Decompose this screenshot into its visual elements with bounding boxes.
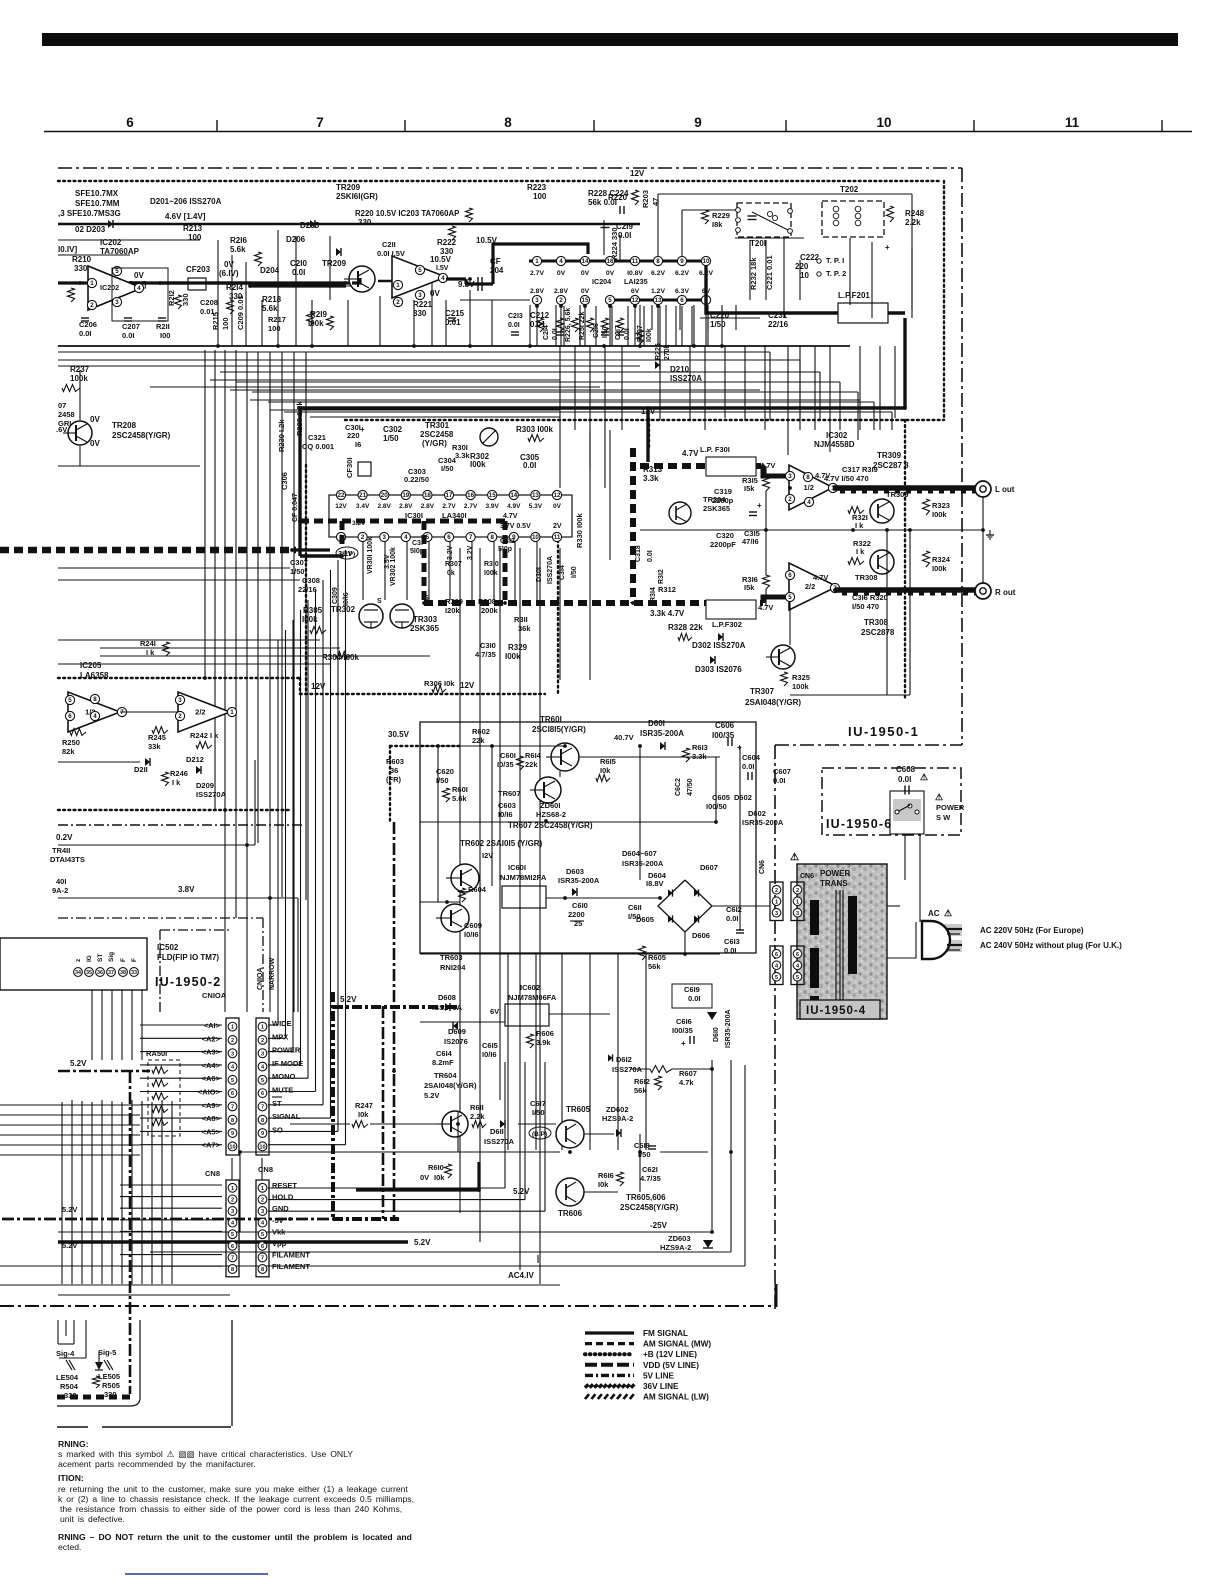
svg-text:22: 22 <box>338 492 345 499</box>
svg-text:7: 7 <box>261 1255 264 1261</box>
svg-text:R24I: R24I <box>140 639 156 648</box>
svg-text:MUTE: MUTE <box>272 1086 293 1095</box>
svg-text:IU-1950-1: IU-1950-1 <box>848 724 919 739</box>
svg-text:5: 5 <box>418 267 422 274</box>
svg-text:I00: I00 <box>160 331 170 340</box>
svg-text:5.2V: 5.2V <box>513 1187 530 1196</box>
svg-text:16: 16 <box>467 492 474 499</box>
svg-text:2SC287 8: 2SC287 8 <box>873 461 909 470</box>
svg-text:L.P.F302: L.P.F302 <box>712 620 742 629</box>
svg-text:C307: C307 <box>290 558 308 567</box>
svg-text:36: 36 <box>390 766 398 775</box>
svg-text:12V: 12V <box>460 681 475 690</box>
svg-text:0.0I: 0.0I <box>898 775 911 784</box>
svg-text:IF MODE: IF MODE <box>272 1059 303 1068</box>
svg-text:D303 IS2076: D303 IS2076 <box>695 665 742 674</box>
svg-text:2: 2 <box>796 888 799 894</box>
svg-text:8: 8 <box>806 474 810 481</box>
svg-text:6: 6 <box>261 1091 264 1097</box>
svg-text:0.0I I.5V: 0.0I I.5V <box>377 249 405 258</box>
svg-text:0V: 0V <box>581 270 590 277</box>
svg-text:FLD(FIP IO TM7): FLD(FIP IO TM7) <box>157 953 219 962</box>
svg-text:7: 7 <box>231 1104 234 1110</box>
svg-text:10: 10 <box>229 1144 235 1150</box>
svg-text:R3II: R3II <box>514 615 528 624</box>
svg-text:R213: R213 <box>183 224 203 233</box>
svg-text:I0/I6: I0/I6 <box>482 1050 497 1059</box>
svg-text:RA50I: RA50I <box>146 1049 167 1058</box>
svg-text:6V: 6V <box>490 1007 499 1016</box>
svg-text:0.22/50: 0.22/50 <box>404 475 429 484</box>
svg-text:ZD60I: ZD60I <box>540 801 560 810</box>
svg-text:5: 5 <box>608 297 612 304</box>
svg-text:CN8: CN8 <box>258 1165 273 1174</box>
svg-text:330: 330 <box>413 309 427 318</box>
svg-text:D60I: D60I <box>648 719 665 728</box>
svg-text:Vpp: Vpp <box>272 1239 287 1248</box>
svg-text:5: 5 <box>261 1078 264 1084</box>
svg-text:3: 3 <box>115 299 119 306</box>
svg-text:5.2V: 5.2V <box>62 1241 77 1250</box>
svg-text:10.5V: 10.5V <box>430 255 452 264</box>
svg-text:2.8V: 2.8V <box>530 288 544 295</box>
svg-text:I/50: I/50 <box>532 1108 545 1117</box>
svg-text:s marked with this symbol: s marked with this symbol ⚠ ▧▧ have crit… <box>58 1449 353 1459</box>
svg-text:D607: D607 <box>700 863 718 872</box>
svg-text:5.2V: 5.2V <box>62 1205 77 1214</box>
svg-text:I5k: I5k <box>744 583 755 592</box>
svg-text:D603: D603 <box>566 867 584 876</box>
svg-text:I0k: I0k <box>600 766 611 775</box>
svg-text:19: 19 <box>402 492 409 499</box>
svg-text:VR30I 100k: VR30I 100k <box>367 537 374 574</box>
svg-text:22/16: 22/16 <box>298 585 317 594</box>
svg-text:5.3V: 5.3V <box>529 503 543 510</box>
svg-text:TR302: TR302 <box>331 605 356 614</box>
svg-text:I/50: I/50 <box>571 566 578 578</box>
svg-text:L out: L out <box>995 485 1015 494</box>
svg-text:2SKI6I(GR): 2SKI6I(GR) <box>336 192 378 201</box>
svg-text:4.7V: 4.7V <box>682 449 699 458</box>
svg-text:5: 5 <box>68 697 72 704</box>
svg-text:8: 8 <box>231 1118 234 1124</box>
svg-text:11: 11 <box>554 534 561 541</box>
svg-text:S: S <box>377 598 382 605</box>
svg-text:CN6: CN6 <box>759 860 766 874</box>
svg-text:5.2V: 5.2V <box>340 995 357 1004</box>
svg-text:ST: ST <box>272 1099 282 1108</box>
svg-text:R6I2: R6I2 <box>634 1077 650 1086</box>
svg-text:HZS9A-2: HZS9A-2 <box>602 1114 633 1123</box>
svg-text:2: 2 <box>261 1038 264 1044</box>
svg-text:5.2V: 5.2V <box>424 1091 439 1100</box>
svg-text:DTAI43TS: DTAI43TS <box>50 855 85 864</box>
svg-text:D204: D204 <box>260 266 280 275</box>
svg-text:L.P. F30I: L.P. F30I <box>700 445 730 454</box>
svg-text:SIGNAL: SIGNAL <box>272 1112 301 1121</box>
svg-text:10: 10 <box>876 115 891 130</box>
svg-text:7: 7 <box>120 709 124 716</box>
svg-text:3.3k: 3.3k <box>455 451 470 460</box>
svg-text:⚠: ⚠ <box>935 792 943 802</box>
svg-text:I0k: I0k <box>434 1173 445 1182</box>
svg-text:R603: R603 <box>386 757 404 766</box>
svg-text:1: 1 <box>396 282 400 289</box>
svg-text:TR209: TR209 <box>336 183 361 192</box>
svg-text:35: 35 <box>86 970 92 976</box>
svg-text:CNIOA: CNIOA <box>257 967 264 990</box>
svg-text:4: 4 <box>404 534 408 541</box>
svg-text:I00k: I00k <box>932 564 947 573</box>
svg-text:ZD602: ZD602 <box>606 1105 629 1114</box>
svg-text:AC: AC <box>928 909 940 918</box>
svg-text:IU-1950-6: IU-1950-6 <box>826 817 892 831</box>
svg-text:NJM78M06FA: NJM78M06FA <box>508 993 557 1002</box>
svg-text:C2I4: C2I4 <box>543 325 550 340</box>
svg-text:220: 220 <box>347 431 360 440</box>
svg-text:4: 4 <box>137 285 141 292</box>
svg-text:I0.IV]: I0.IV] <box>58 245 77 254</box>
svg-text:IC202: IC202 <box>100 238 122 247</box>
svg-text:+: + <box>681 1039 686 1048</box>
svg-text:ISR35-200A: ISR35-200A <box>558 876 600 885</box>
svg-text:NJM78MI2FA: NJM78MI2FA <box>500 873 547 882</box>
svg-text:2SC2458(Y/GR): 2SC2458(Y/GR) <box>620 1203 679 1212</box>
svg-text:2.7V: 2.7V <box>464 503 478 510</box>
svg-text:CF30I: CF30I <box>345 458 354 478</box>
svg-text:100: 100 <box>533 192 547 201</box>
svg-text:10: 10 <box>800 271 809 280</box>
svg-text:0V: 0V <box>134 271 144 280</box>
svg-text:1/50: 1/50 <box>383 434 399 443</box>
svg-text:330: 330 <box>74 264 88 273</box>
svg-text:1: 1 <box>775 899 778 905</box>
svg-text:+: + <box>757 501 762 510</box>
svg-text:2SCI8I5(Y/GR): 2SCI8I5(Y/GR) <box>532 725 586 734</box>
svg-text:(Y/GR): (Y/GR) <box>422 439 447 448</box>
svg-text:2.2k: 2.2k <box>470 1112 485 1121</box>
svg-text:C6I7: C6I7 <box>530 1099 546 1108</box>
svg-text:I00k: I00k <box>932 510 947 519</box>
svg-text:TR304: TR304 <box>703 495 726 504</box>
svg-text:I5k: I5k <box>744 484 755 493</box>
svg-text:5: 5 <box>775 975 778 981</box>
svg-text:R6I5: R6I5 <box>600 757 616 766</box>
svg-text:18: 18 <box>424 492 431 499</box>
svg-text:22k: 22k <box>472 736 485 745</box>
svg-text:47/I6: 47/I6 <box>742 537 759 546</box>
svg-text:0V: 0V <box>581 288 590 295</box>
svg-text:HZS68-2: HZS68-2 <box>536 810 566 819</box>
svg-text:5: 5 <box>231 1232 234 1238</box>
svg-text:R313: R313 <box>643 465 663 474</box>
svg-text:6: 6 <box>68 713 72 720</box>
svg-text:TR60I: TR60I <box>540 715 562 724</box>
svg-text:R305: R305 <box>303 606 323 615</box>
svg-text:R247: R247 <box>355 1101 373 1110</box>
svg-text:2458: 2458 <box>58 410 75 419</box>
svg-text:R220: R220 <box>608 193 628 202</box>
svg-text:ISS270A: ISS270A <box>547 556 554 584</box>
svg-text:C605: C605 <box>712 793 730 802</box>
svg-text:R218: R218 <box>262 295 282 304</box>
svg-text:3.2V: 3.2V <box>447 545 454 560</box>
svg-text:34: 34 <box>75 970 81 976</box>
svg-text:30.5V: 30.5V <box>388 730 410 739</box>
svg-text:4: 4 <box>93 713 97 720</box>
svg-text:12V: 12V <box>335 503 347 510</box>
svg-text:TR605,606: TR605,606 <box>626 1193 666 1202</box>
svg-text:C607: C607 <box>773 767 791 776</box>
svg-text:TR606: TR606 <box>558 1209 583 1218</box>
svg-text:L.P.F201: L.P.F201 <box>838 291 870 300</box>
svg-text:12: 12 <box>632 297 639 304</box>
svg-text:4.9V: 4.9V <box>507 503 521 510</box>
svg-text:2SC2878: 2SC2878 <box>861 628 895 637</box>
svg-text:⚠: ⚠ <box>944 908 952 918</box>
svg-text:2: 2 <box>231 1038 234 1044</box>
svg-text:C6I5: C6I5 <box>482 1041 498 1050</box>
svg-text:R222: R222 <box>437 238 457 247</box>
svg-text:220: 220 <box>795 262 809 271</box>
svg-text:R504: R504 <box>60 1382 79 1391</box>
svg-text:11: 11 <box>1065 115 1080 130</box>
svg-text:0.01: 0.01 <box>445 318 461 327</box>
svg-text:82k: 82k <box>62 747 75 756</box>
svg-text:8: 8 <box>490 534 494 541</box>
svg-text:8: 8 <box>656 258 660 265</box>
svg-text:IC302: IC302 <box>826 431 848 440</box>
svg-text:02 D203: 02 D203 <box>75 225 106 234</box>
svg-text:3: 3 <box>261 1051 264 1057</box>
svg-text:2SK365: 2SK365 <box>410 624 439 633</box>
svg-text:R6I6: R6I6 <box>598 1171 614 1180</box>
svg-text:38: 38 <box>120 970 126 976</box>
svg-text:-25V: -25V <box>650 1221 668 1230</box>
svg-text:R330 I00k: R330 I00k <box>575 513 584 548</box>
svg-text:200k: 200k <box>481 606 499 615</box>
svg-text:ST: ST <box>97 954 104 962</box>
svg-text:D6I0: D6I0 <box>713 1027 720 1042</box>
svg-text:I20k: I20k <box>445 606 460 615</box>
svg-text:C208: C208 <box>200 298 218 307</box>
svg-text:C6I4: C6I4 <box>436 1049 453 1058</box>
svg-text:AM SIGNAL (LW): AM SIGNAL (LW) <box>643 1393 709 1402</box>
svg-text:ZD603: ZD603 <box>668 1234 691 1243</box>
svg-text:LE504: LE504 <box>56 1373 79 1382</box>
svg-text:C212: C212 <box>530 311 550 320</box>
svg-text:3: 3 <box>231 1209 234 1215</box>
svg-text:4: 4 <box>807 499 811 506</box>
svg-text:MONO: MONO <box>272 1072 295 1081</box>
svg-text:D602: D602 <box>748 809 766 818</box>
svg-text:C2I3: C2I3 <box>508 313 523 320</box>
svg-text:C6I0: C6I0 <box>572 901 588 910</box>
svg-text:C306: C306 <box>280 472 289 490</box>
svg-text:F: F <box>120 958 127 962</box>
svg-text:12V: 12V <box>630 169 645 178</box>
svg-text:C209 0.01: C209 0.01 <box>236 295 245 330</box>
svg-text:R out: R out <box>995 588 1016 597</box>
svg-text:0.0I: 0.0I <box>508 322 520 329</box>
svg-text:100: 100 <box>268 324 281 333</box>
svg-text:47/50: 47/50 <box>687 778 694 796</box>
svg-text:2SC2458(Y/GR): 2SC2458(Y/GR) <box>112 431 171 440</box>
svg-text:⚠: ⚠ <box>790 852 799 863</box>
svg-text:C318: C318 <box>635 545 642 562</box>
svg-text:TR303: TR303 <box>413 615 438 624</box>
svg-text:3.9V: 3.9V <box>486 503 500 510</box>
svg-text:R3I4: R3I4 <box>650 587 657 602</box>
svg-text:4.7V: 4.7V <box>503 513 518 520</box>
svg-text:R6I4: R6I4 <box>525 751 542 760</box>
svg-text:T20I: T20I <box>750 239 766 248</box>
svg-text:3.8V: 3.8V <box>178 885 195 894</box>
svg-text:2: 2 <box>90 302 94 309</box>
svg-text:3: 3 <box>788 473 792 480</box>
svg-text:8: 8 <box>93 696 97 703</box>
svg-text:0V: 0V <box>90 415 100 424</box>
svg-text:I00k: I00k <box>505 652 521 661</box>
svg-text:11: 11 <box>632 258 639 265</box>
svg-text:R220 10.5V IC203 TA7060AP: R220 10.5V IC203 TA7060AP <box>355 209 459 218</box>
svg-text:C60I: C60I <box>500 751 516 760</box>
svg-text:5: 5 <box>788 594 792 601</box>
svg-text:C215: C215 <box>445 309 465 318</box>
svg-text:ISR35-200A: ISR35-200A <box>640 729 684 738</box>
svg-text:2.8V: 2.8V <box>554 288 568 295</box>
svg-text:6: 6 <box>126 115 134 130</box>
svg-text:D2II: D2II <box>134 765 148 774</box>
svg-text:5V LINE: 5V LINE <box>643 1371 674 1380</box>
svg-text:CNIOA: CNIOA <box>202 991 227 1000</box>
svg-text:330: 330 <box>358 218 372 227</box>
svg-text:2: 2 <box>261 1197 264 1203</box>
svg-text:100k: 100k <box>792 682 810 691</box>
svg-text:1: 1 <box>261 1186 264 1192</box>
svg-text:VDD (5V LINE): VDD (5V LINE) <box>643 1361 699 1370</box>
svg-text:0V: 0V <box>553 503 562 510</box>
svg-text:2V: 2V <box>553 523 562 530</box>
svg-text:2: 2 <box>361 534 365 541</box>
svg-text:1/2: 1/2 <box>804 483 814 492</box>
svg-text:3: 3 <box>775 911 778 917</box>
svg-text:S W: S W <box>936 813 951 822</box>
svg-text:40I: 40I <box>56 877 66 886</box>
svg-text:1: 1 <box>231 1025 234 1031</box>
svg-text:3.9k: 3.9k <box>536 1038 551 1047</box>
svg-text:LAI235: LAI235 <box>624 277 648 286</box>
svg-text:R242 I k: R242 I k <box>190 731 219 740</box>
svg-text:8: 8 <box>261 1267 264 1273</box>
svg-text:2.8V: 2.8V <box>378 503 392 510</box>
svg-text:6.3V: 6.3V <box>675 288 689 295</box>
svg-text:R602: R602 <box>472 727 490 736</box>
svg-text:IG: IG <box>86 955 93 962</box>
svg-text:acement parts recommended b: acement parts recommended by the manifac… <box>58 1459 256 1469</box>
svg-text:IC502: IC502 <box>157 943 179 952</box>
svg-text:T202: T202 <box>840 185 859 194</box>
svg-text:4: 4 <box>559 258 563 265</box>
svg-text:C6I6: C6I6 <box>676 1017 692 1026</box>
svg-text:1/50: 1/50 <box>290 567 305 576</box>
svg-text:,3 SFE10.7MS3G: ,3 SFE10.7MS3G <box>58 209 121 218</box>
svg-text:⚠: ⚠ <box>920 772 928 782</box>
svg-text:TR209: TR209 <box>322 259 347 268</box>
svg-text:D602: D602 <box>734 793 752 802</box>
svg-text:R221: R221 <box>413 300 433 309</box>
svg-text:I00k: I00k <box>470 460 486 469</box>
svg-text:IC60I: IC60I <box>508 863 526 872</box>
svg-text:D608: D608 <box>438 993 456 1002</box>
svg-text:2: 2 <box>231 1197 234 1203</box>
svg-text:6: 6 <box>680 297 684 304</box>
svg-text:5: 5 <box>231 1078 234 1084</box>
svg-text:C2II: C2II <box>382 240 396 249</box>
svg-text:56k: 56k <box>648 962 661 971</box>
svg-text:2200: 2200 <box>568 910 585 919</box>
svg-text:8: 8 <box>231 1267 234 1273</box>
svg-text:6: 6 <box>231 1244 234 1250</box>
svg-text:ISS270A: ISS270A <box>612 1065 643 1074</box>
svg-text:2SAI048(Y/GR): 2SAI048(Y/GR) <box>424 1081 477 1090</box>
svg-text:AM SIGNAL (MW): AM SIGNAL (MW) <box>643 1340 711 1349</box>
svg-text:C620: C620 <box>436 767 454 776</box>
svg-text:6.2V: 6.2V <box>675 270 689 277</box>
svg-text:100k: 100k <box>70 374 88 383</box>
svg-text:1.2V: 1.2V <box>651 288 665 295</box>
svg-text:SFE10.7MM: SFE10.7MM <box>75 199 120 208</box>
svg-text:the resistance from chassis to: the resistance from chassis to either si… <box>60 1504 402 1514</box>
svg-text:0.0I: 0.0I <box>647 550 654 562</box>
svg-text:D6II: D6II <box>490 1127 504 1136</box>
svg-text:Sig-5: Sig-5 <box>98 1348 116 1357</box>
svg-text:D210: D210 <box>670 365 690 374</box>
svg-text:0.0I: 0.0I <box>773 776 786 785</box>
svg-text:Sig-4: Sig-4 <box>56 1349 75 1358</box>
svg-text:AC4.IV: AC4.IV <box>508 1271 534 1280</box>
svg-text:TR602 2SAI0I5 (Y/GR): TR602 2SAI0I5 (Y/GR) <box>460 839 543 848</box>
svg-text:0k: 0k <box>447 570 455 577</box>
svg-text:R6II: R6II <box>470 1103 484 1112</box>
svg-text:3.2V: 3.2V <box>467 545 474 560</box>
svg-text:R329: R329 <box>508 643 528 652</box>
svg-text:TR208: TR208 <box>112 421 137 430</box>
svg-text:C207: C207 <box>122 322 140 331</box>
svg-text:10: 10 <box>259 1144 265 1150</box>
svg-text:ISS270A: ISS270A <box>484 1137 515 1146</box>
svg-text:ISS270A: ISS270A <box>196 790 227 799</box>
svg-text:0.0I: 0.0I <box>688 994 701 1003</box>
svg-text:NJM4558D: NJM4558D <box>814 440 855 449</box>
svg-text:0V: 0V <box>224 260 234 269</box>
svg-text:C3I: C3I <box>412 540 423 547</box>
svg-text:(6.IV): (6.IV) <box>219 269 239 278</box>
svg-text:R250: R250 <box>62 738 80 747</box>
svg-text:TR308: TR308 <box>864 618 889 627</box>
svg-text:330: 330 <box>181 293 190 306</box>
svg-text:HOLD: HOLD <box>272 1193 294 1202</box>
svg-text:0V: 0V <box>557 270 566 277</box>
svg-text:I00/35: I00/35 <box>672 1026 693 1035</box>
svg-text:2/2: 2/2 <box>805 582 815 591</box>
svg-text:C604: C604 <box>742 753 761 762</box>
svg-text:I/50: I/50 <box>441 464 454 473</box>
svg-text:D212: D212 <box>186 755 204 764</box>
svg-text:2.8V: 2.8V <box>421 503 435 510</box>
svg-text:0.0I: 0.0I <box>724 946 737 955</box>
svg-text:2: 2 <box>788 496 792 503</box>
